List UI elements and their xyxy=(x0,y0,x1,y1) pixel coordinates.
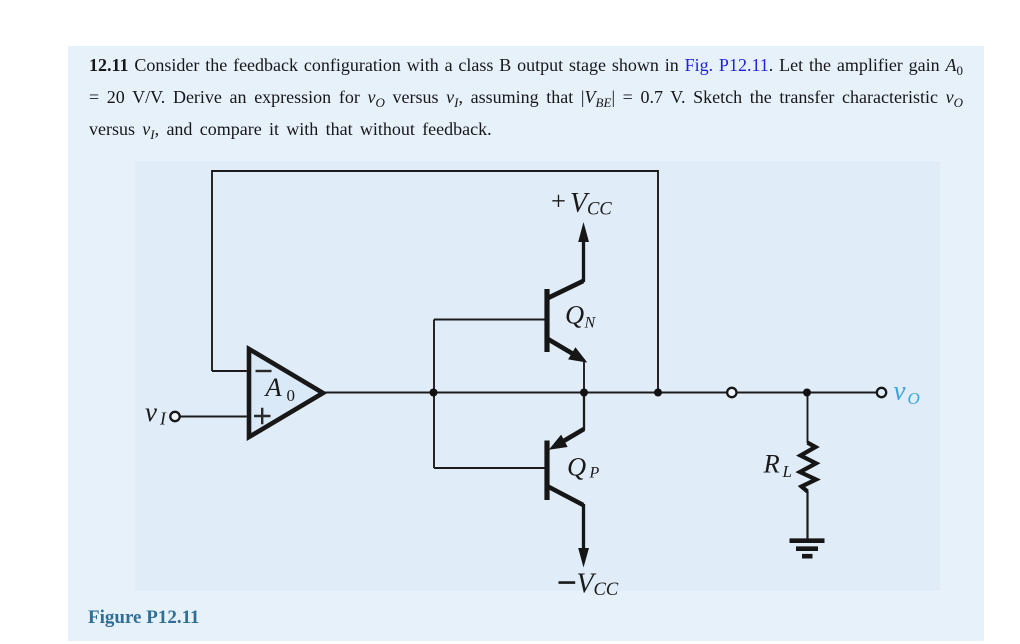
node junction dot feedback xyxy=(654,389,662,397)
label vO xyxy=(894,376,920,409)
svg-text:O: O xyxy=(908,389,920,408)
problem statement text xyxy=(89,50,963,146)
op-amp A0 xyxy=(249,349,323,437)
+VCC supply arrowhead xyxy=(578,222,589,242)
svg-text:I: I xyxy=(159,409,167,429)
wire bases vertical xyxy=(433,320,435,469)
wire op-amp output xyxy=(322,392,434,394)
QP emitter arrowhead xyxy=(551,436,567,449)
wire RL top xyxy=(807,393,809,444)
svg-text:CC: CC xyxy=(594,580,619,600)
figure caption xyxy=(88,607,200,629)
svg-text:v: v xyxy=(894,376,906,406)
wire QN emitter to output xyxy=(583,359,585,393)
svg-text:CC: CC xyxy=(587,200,612,220)
svg-text:L: L xyxy=(782,462,792,481)
ground symbol xyxy=(790,541,825,557)
svg-text:Q: Q xyxy=(565,300,584,330)
wire output to QP emitter xyxy=(583,393,585,431)
svg-text:P: P xyxy=(589,465,600,482)
resistor RL zigzag xyxy=(800,443,816,492)
terminal vO open circle xyxy=(877,388,886,397)
label QP xyxy=(567,452,600,482)
open circle on output line xyxy=(727,388,736,397)
svg-text:v: v xyxy=(145,397,157,427)
label RL xyxy=(763,449,792,482)
node junction dot op-amp output xyxy=(430,389,438,397)
label -VCC xyxy=(559,569,619,600)
wire feedback loop from op-amp inverting input up over to output node xyxy=(212,171,658,393)
figure image background xyxy=(135,161,940,591)
label vI xyxy=(145,397,167,429)
node junction dot RL xyxy=(803,389,811,397)
wire vI input to op-amp + xyxy=(180,416,247,418)
wire QP base xyxy=(434,467,545,469)
svg-text:0: 0 xyxy=(287,386,296,405)
label QN xyxy=(565,300,597,332)
wire QN base xyxy=(434,319,545,321)
wire inverting input xyxy=(212,370,247,372)
svg-text:N: N xyxy=(584,315,597,332)
-VCC supply arrowhead xyxy=(578,548,589,568)
transistor QN (npn) xyxy=(547,241,584,355)
QN emitter arrowhead xyxy=(569,349,585,362)
transistor QP (pnp) xyxy=(547,429,584,550)
label +VCC xyxy=(551,186,612,220)
terminal vI open circle xyxy=(170,412,179,421)
node junction dot emitters xyxy=(580,389,588,397)
wire main output line xyxy=(434,392,877,394)
svg-text:Q: Q xyxy=(567,452,586,482)
svg-text:+: + xyxy=(551,186,566,216)
wire RL bottom to ground xyxy=(806,491,808,540)
svg-text:A: A xyxy=(264,372,283,402)
svg-text:R: R xyxy=(763,449,780,479)
